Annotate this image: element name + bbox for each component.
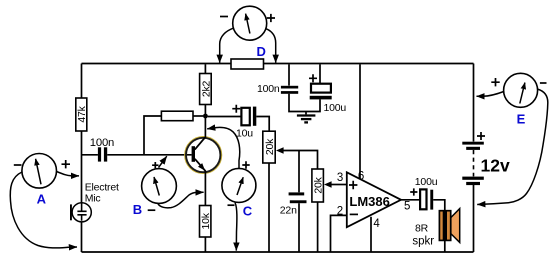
capacitor 100u (output) xyxy=(410,176,445,211)
meter E minus probe xyxy=(477,89,548,205)
svg-text:47k: 47k xyxy=(76,105,88,122)
wire feedback to junction xyxy=(193,115,203,117)
svg-text:3: 3 xyxy=(337,172,343,184)
speaker 8R xyxy=(412,209,459,252)
ground xyxy=(297,112,316,123)
meter E xyxy=(491,73,546,107)
svg-text:100n: 100n xyxy=(90,137,114,149)
meter B minus probe xyxy=(158,192,204,208)
wire pin 4 to ground xyxy=(370,217,372,252)
potentiometer 20k (second) xyxy=(312,169,347,202)
svg-text:B: B xyxy=(133,202,142,217)
pin 2 label xyxy=(337,206,343,218)
op-amp U1 LM386 xyxy=(347,172,401,227)
node junction collector/2k2/feedback xyxy=(203,114,208,119)
label D xyxy=(257,44,266,59)
label B xyxy=(133,202,142,217)
meter E plus probe xyxy=(477,92,504,97)
capacitor 100n (supply decoupling) xyxy=(257,64,298,95)
svg-text:12v: 12v xyxy=(481,156,510,176)
svg-text:20k: 20k xyxy=(313,176,325,193)
wire pot2 to ground xyxy=(317,202,319,252)
label C xyxy=(243,203,253,218)
pin 6 label xyxy=(358,171,364,183)
svg-text:A: A xyxy=(37,192,47,207)
svg-text:8R: 8R xyxy=(415,223,429,235)
meter D xyxy=(220,6,275,40)
svg-text:6: 6 xyxy=(358,171,364,183)
resistor D (current sense in rail) xyxy=(231,59,264,69)
label E xyxy=(517,112,526,127)
meter A plus probe xyxy=(57,172,80,176)
capacitor 22n xyxy=(280,151,307,253)
svg-text:100u: 100u xyxy=(324,102,347,114)
wire pin 6 supply xyxy=(359,64,361,179)
svg-text:22n: 22n xyxy=(280,204,297,216)
electret mic M1 xyxy=(70,182,119,222)
capacitor 100n (mic coupling) xyxy=(82,137,192,162)
transistor Q1 xyxy=(185,137,222,174)
wire pot1 to ground xyxy=(268,163,270,252)
potentiometer 20k (volume) xyxy=(263,131,318,169)
meter C xyxy=(222,161,256,205)
meter D right probe xyxy=(266,29,275,63)
meter C minus probe xyxy=(235,203,237,251)
resistor 2k2 xyxy=(200,64,213,114)
capacitor 100u (supply) xyxy=(309,64,346,114)
svg-text:Mic: Mic xyxy=(85,192,101,204)
wire feedback to base xyxy=(144,116,161,155)
wire bottom rail xyxy=(82,251,474,253)
resistor 10k xyxy=(200,206,213,253)
svg-text:100u: 100u xyxy=(415,176,438,188)
battery 12v xyxy=(462,132,510,185)
svg-text:4: 4 xyxy=(373,218,380,230)
svg-text:LM386: LM386 xyxy=(349,194,389,209)
svg-text:2k2: 2k2 xyxy=(200,80,212,97)
meter B plus probe xyxy=(159,156,167,167)
pin 5 label xyxy=(404,201,410,213)
meter B xyxy=(142,162,177,210)
svg-text:100n: 100n xyxy=(257,83,280,95)
svg-text:spkr: spkr xyxy=(412,236,434,248)
pin 4 label xyxy=(373,218,380,230)
capacitor 10u xyxy=(208,105,270,140)
svg-text:C: C xyxy=(243,203,253,218)
svg-text:D: D xyxy=(257,44,266,59)
svg-text:10k: 10k xyxy=(200,212,212,229)
svg-text:20k: 20k xyxy=(264,138,276,155)
wire decoupling to ground node xyxy=(289,94,320,112)
svg-text:E: E xyxy=(517,112,526,127)
wire right rail xyxy=(473,64,475,253)
wire left rail xyxy=(81,64,83,253)
wire collector xyxy=(204,118,206,137)
meter C plus probe xyxy=(207,127,240,168)
label A xyxy=(37,192,47,207)
meter A xyxy=(14,154,70,189)
svg-text:5: 5 xyxy=(404,201,410,213)
resistor 47k xyxy=(76,98,88,131)
wire emitter xyxy=(204,171,206,206)
meter D left probe xyxy=(220,28,234,63)
wire top rail xyxy=(82,63,474,65)
resistor feedback (unlabeled) xyxy=(161,111,193,121)
svg-text:10u: 10u xyxy=(236,128,253,140)
wire pin 2 to ground xyxy=(331,215,347,252)
pin 3 label xyxy=(337,172,343,184)
wire pin 5 output xyxy=(401,199,419,201)
meter A minus probe xyxy=(10,172,77,248)
